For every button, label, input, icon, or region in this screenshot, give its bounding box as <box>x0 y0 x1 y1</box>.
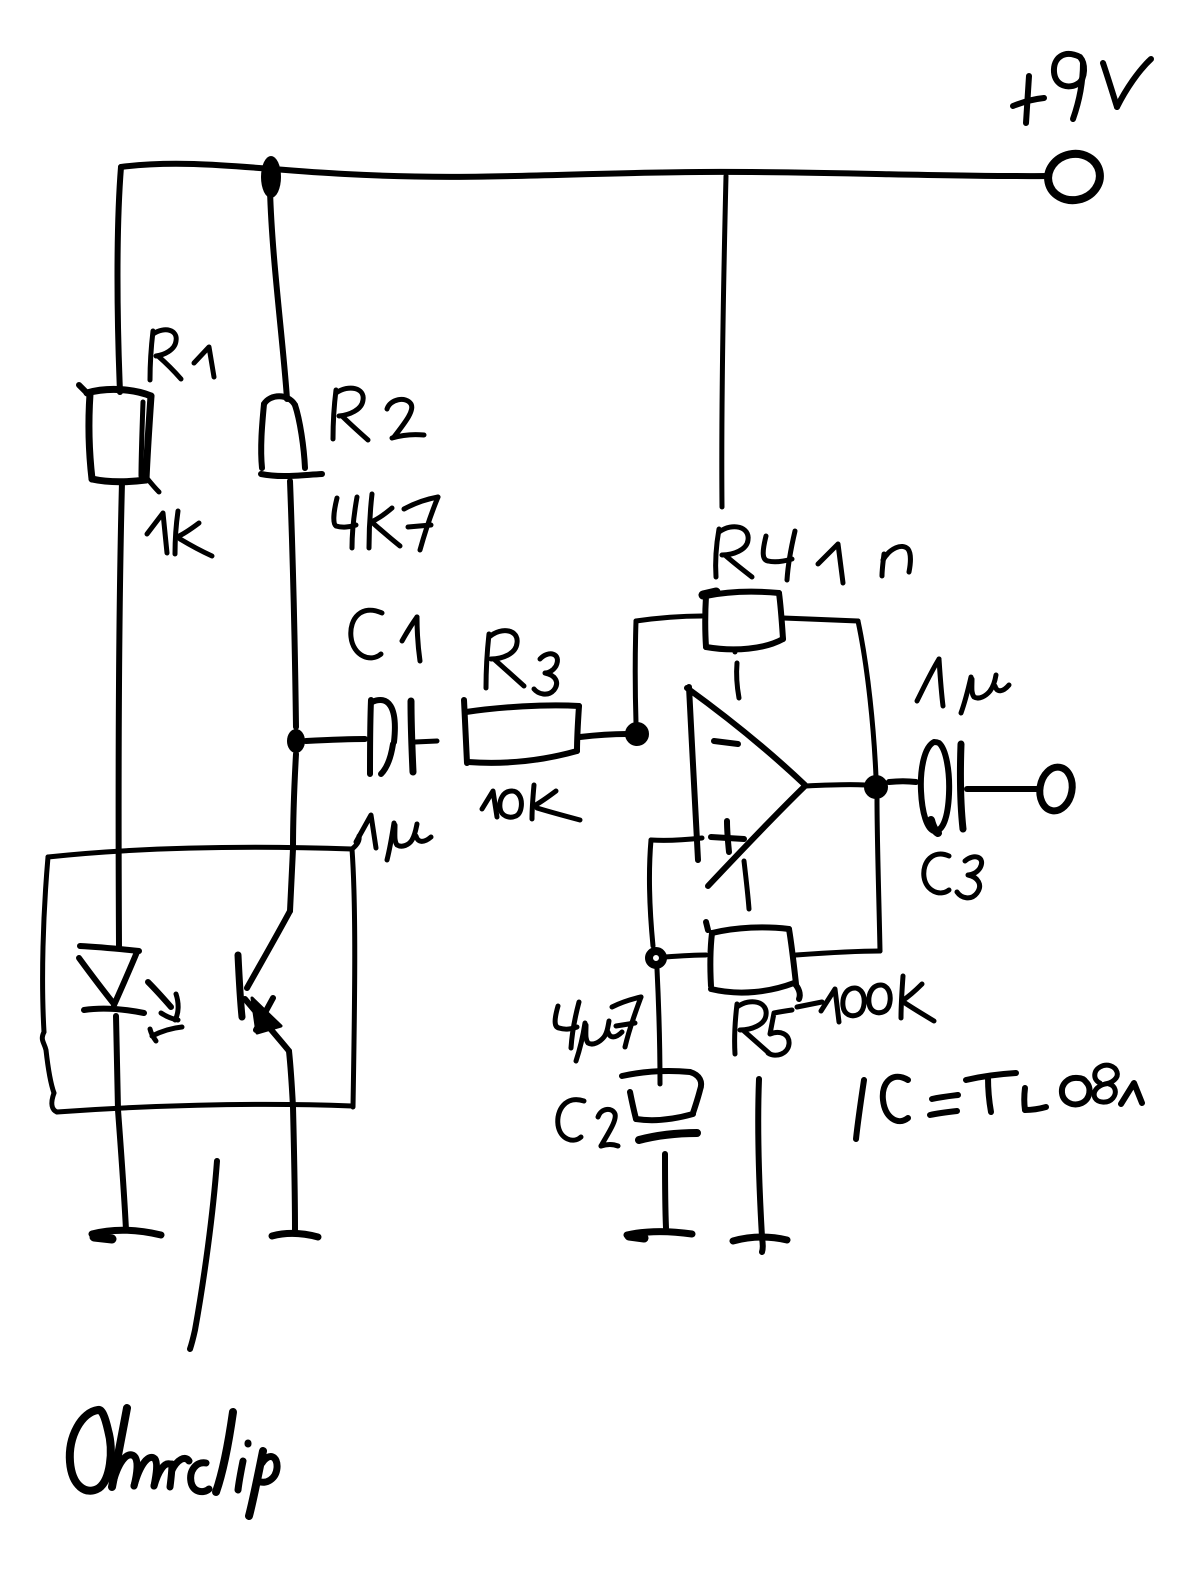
wire: node to C1 <box>306 739 365 741</box>
label C3 <box>924 854 982 898</box>
label 1u (C3 value) <box>917 659 1009 713</box>
wire: C3 to output terminal <box>967 786 1037 792</box>
optocoupler box <box>42 836 359 1112</box>
label 4k7 (R2 value) <box>334 494 438 550</box>
node: rail junction to R2 <box>261 156 281 198</box>
wire: R4 right side down to output node <box>783 618 876 777</box>
wire: sensor cable stroke <box>190 1161 217 1349</box>
wire: +9V branch down (supply to IC region) <box>722 176 726 507</box>
wire: LED cathode down to ground <box>116 1016 126 1230</box>
wire: node down into opto box <box>293 754 296 849</box>
op-amp U1 (TL081) <box>687 650 805 909</box>
wire: node to R5 <box>665 955 706 957</box>
wire: R3 to inverting node <box>580 734 627 737</box>
label IC=TL081 <box>856 1065 1142 1139</box>
wire: junction down to R2 <box>270 190 287 399</box>
label R3 <box>486 631 557 695</box>
wire: R2 down to C1 node <box>290 481 296 727</box>
node: inverting input junction <box>631 728 643 740</box>
node A: R2 / C1 / opto junction <box>287 729 305 753</box>
ground (V- branch) <box>733 1237 787 1252</box>
node: output junction <box>870 781 882 793</box>
wire: R5 node down to C2 <box>657 969 660 1084</box>
node: non-inverting / R5 / C2 junction <box>649 951 663 965</box>
label C2 <box>558 1100 618 1146</box>
label R4 <box>716 527 795 580</box>
wire: emitter down to ground <box>289 1051 295 1231</box>
LED D1 (inside optocoupler) <box>79 946 144 1013</box>
capacitor C2 (electrolytic 4u7) <box>622 1071 701 1140</box>
wire: op-amp V- branch down to ground <box>758 1079 762 1237</box>
label 1k (R1 value) <box>147 511 212 556</box>
wire: inverting node up to R4 <box>635 616 702 723</box>
wire: C2 to ground <box>665 1154 666 1228</box>
wire: +9V top supply rail <box>121 164 1048 177</box>
wire: rail down to R1 <box>118 167 122 392</box>
LED emission arrows <box>148 982 182 1041</box>
phototransistor Q1 (inside optocoupler) <box>238 849 293 1051</box>
resistor R1 <box>79 385 159 492</box>
ground (transistor branch) <box>272 1233 318 1237</box>
resistor R4 <box>703 592 783 650</box>
resistor R3 <box>464 700 579 763</box>
label R5 <box>735 1002 822 1055</box>
label R2 <box>333 388 424 440</box>
ground (C2) <box>627 1232 692 1239</box>
label 1u (C1 value) <box>356 815 431 860</box>
resistor R2 <box>261 396 322 476</box>
label 100k (R5 value) <box>821 976 934 1022</box>
label R1 <box>150 330 214 380</box>
wire: R1 down into opto box to LED <box>119 482 122 946</box>
label 10k (R3 value) <box>482 785 580 820</box>
capacitor C1 <box>370 700 437 774</box>
capacitor C3 <box>921 742 963 833</box>
wire: op-amp output <box>806 785 865 786</box>
label 1n (R4 value) <box>818 544 910 583</box>
wire: + input left and down to R5 node <box>650 838 702 946</box>
label +9V <box>1013 54 1151 123</box>
label Ohrclip <box>70 1408 277 1516</box>
label 4u7 (C2 value) <box>555 997 641 1061</box>
label C1 <box>351 610 420 661</box>
terminal: output (circle) <box>1036 765 1075 814</box>
wire: R5 right side up to output node <box>796 799 880 955</box>
terminal +9V (circle) <box>1044 149 1104 205</box>
resistor R5 <box>706 922 800 999</box>
wire: output node to C3 <box>889 778 916 785</box>
ground (LED branch) <box>92 1230 161 1239</box>
